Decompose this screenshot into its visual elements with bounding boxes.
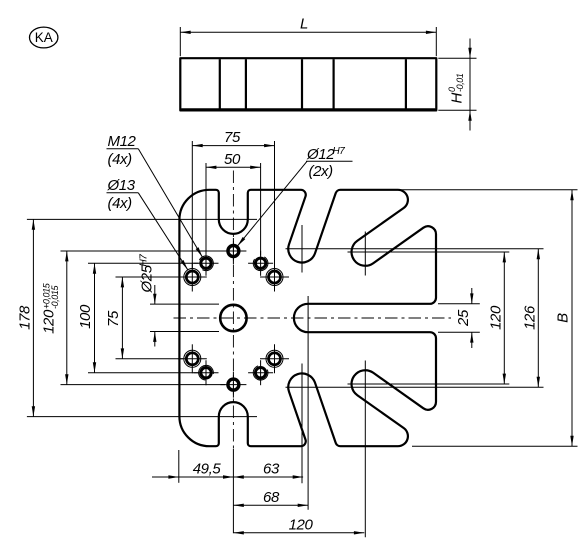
svg-text:75: 75 (105, 310, 122, 327)
slot B end centerline cross (348, 232, 510, 276)
center bore D25H7 (220, 305, 246, 331)
tapped hole M12 #2 (248, 251, 273, 276)
dimension 75 top (192, 129, 274, 269)
svg-text:H: H (449, 93, 466, 104)
vertical centerline (232, 171, 234, 534)
svg-text:H7: H7 (139, 254, 150, 267)
svg-text:(4x): (4x) (108, 195, 133, 212)
tapped hole M12 #1 (194, 251, 219, 276)
svg-text:Ø13: Ø13 (107, 177, 136, 194)
slot B2 end centerline cross (348, 361, 510, 538)
dimension 120 +0,015/-0,015 left (41, 251, 226, 385)
svg-text:68: 68 (263, 489, 280, 506)
dimension 75 left (105, 277, 183, 359)
svg-text:-0,015: -0,015 (50, 284, 60, 309)
dimension 120 bottom (233, 517, 364, 535)
dimension B right (387, 190, 578, 446)
svg-text:(2x): (2x) (309, 163, 334, 180)
svg-text:L: L (300, 16, 308, 33)
svg-text:63: 63 (263, 461, 280, 478)
svg-text:(4x): (4x) (108, 151, 133, 168)
label D12 H7 (2x) with leader (237, 146, 352, 246)
svg-text:25: 25 (455, 309, 472, 327)
label M12 (4x) with leader (107, 133, 203, 257)
svg-text:-0,01: -0,01 (455, 73, 465, 92)
mid slot end centerline (307, 296, 309, 510)
side view outline (180, 58, 436, 110)
dimension 50 top (206, 151, 261, 256)
svg-text:120: 120 (289, 517, 314, 534)
svg-text:120: 120 (487, 305, 504, 330)
svg-text:B: B (555, 313, 572, 323)
dimension 126 right (521, 249, 540, 387)
svg-text:75: 75 (224, 129, 241, 146)
bottom U-slot center and 178 extension line (27, 416, 257, 418)
svg-text:Ø25: Ø25 (139, 264, 156, 293)
svg-text:H7: H7 (333, 146, 346, 157)
svg-text:178: 178 (17, 305, 34, 330)
tapped hole M12 #3 (194, 360, 219, 385)
dimension 100 left (77, 263, 199, 372)
through hole D13 #4 (260, 344, 289, 373)
svg-text:126: 126 (521, 305, 538, 330)
svg-text:M12: M12 (108, 133, 137, 150)
side view slot edge lines (220, 59, 406, 109)
svg-text:Ø12: Ø12 (306, 146, 335, 163)
dimension 68 bottom (233, 489, 308, 507)
horizontal centerline (174, 317, 452, 319)
through hole D13 #3 (178, 344, 207, 373)
svg-text:120: 120 (41, 309, 58, 334)
through hole D13 #1 (178, 263, 207, 292)
dimension H with tolerance (438, 39, 476, 131)
plate outline (179, 190, 436, 446)
KA variant badge (30, 27, 58, 48)
dimension 178 left (17, 219, 36, 416)
tapped hole M12 #4 (248, 360, 273, 385)
label D13 (4x) with leader (107, 177, 188, 270)
dowel hole D12H7 #1 (220, 238, 246, 264)
svg-text:KA: KA (35, 30, 53, 45)
dimension 63 bottom (233, 461, 303, 479)
svg-text:49,5: 49,5 (193, 461, 222, 478)
svg-text:50: 50 (224, 151, 241, 168)
dimension 49,5 bottom (152, 450, 233, 483)
svg-text:100: 100 (77, 304, 94, 329)
slot A end centerline cross (286, 225, 544, 273)
dimension 25 slot width right (438, 288, 480, 348)
through hole D13 #2 (260, 263, 289, 292)
top U-slot center and 178 extension line (27, 218, 257, 220)
dimension D25H7 center bore (139, 254, 220, 347)
slot A2 end centerline cross (286, 364, 544, 484)
dimension L (180, 16, 436, 57)
dimension 120 right (487, 252, 506, 384)
dowel hole D12H7 #2 (220, 372, 246, 398)
